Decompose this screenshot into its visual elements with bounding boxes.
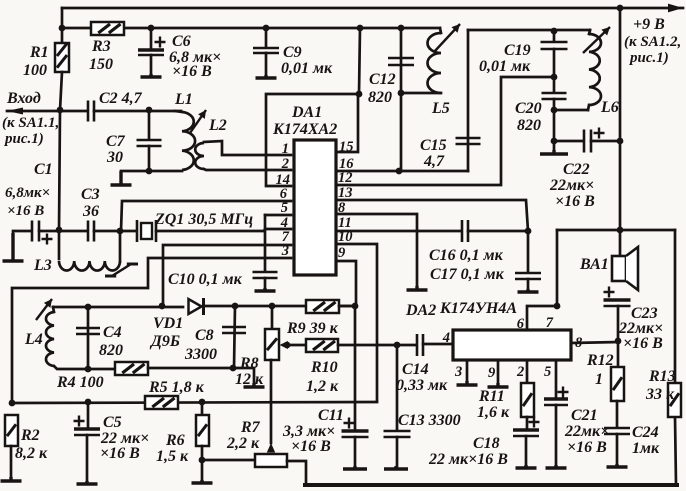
wire R8 wiper column to R7 (270, 360, 273, 443)
wire L1 top lead (175, 111, 182, 112)
capacitor C18 (513, 417, 540, 437)
svg-text:13: 13 (338, 185, 353, 201)
wire C6 stem (150, 28, 153, 49)
svg-text:К174УН4А: К174УН4А (439, 300, 517, 317)
wire R12 to C24 (616, 401, 619, 427)
wire L5 bottom row (401, 92, 441, 95)
node C12/L5 bottom (398, 90, 405, 97)
wire input (7, 110, 87, 113)
wire R6 stem (201, 402, 204, 415)
resistor R11 (521, 383, 534, 417)
svg-text:1,5 к: 1,5 к (156, 448, 189, 465)
wire C11 column (354, 306, 357, 430)
wire bus to R13 (675, 417, 676, 484)
ground DA2 pin3 (457, 381, 478, 385)
svg-text:3300: 3300 (184, 346, 217, 363)
node C4 top (85, 304, 92, 311)
ground pin8 DA1 (407, 286, 428, 290)
svg-text:DA1: DA1 (291, 104, 322, 121)
capacitor C11 (342, 418, 369, 438)
wire R4 to ground stub (148, 368, 254, 384)
wire pin7 to VD1 node (163, 245, 291, 306)
node rail2 left junction (59, 25, 66, 32)
svg-text:1,6 к: 1,6 к (477, 404, 510, 421)
wire C9 lower stem (265, 53, 268, 77)
crystal ZQ1 30,5MHz (137, 220, 156, 242)
wire C20 bottom column (553, 99, 556, 152)
svg-text:С18: С18 (473, 435, 500, 452)
wire R1 bottom column (59, 72, 62, 231)
node bus/DA2 supply (617, 227, 624, 234)
wire C17 bottom (527, 279, 530, 291)
wire C8 stem (234, 306, 235, 368)
svg-text:33 к: 33 к (645, 386, 675, 403)
wire C22 row (554, 140, 583, 143)
wire C1 to C3 (39, 230, 87, 233)
svg-text:С7: С7 (106, 133, 126, 150)
op-amp DA2 body K174UN4A (453, 330, 571, 360)
wire R6 bottom (201, 446, 204, 482)
wire C10 bottom (264, 278, 267, 290)
svg-text:7: 7 (546, 315, 554, 331)
svg-text:1: 1 (595, 371, 603, 388)
resistor R4 (115, 362, 148, 375)
wire L6 top lead (589, 30, 590, 34)
node C12/pin16 (396, 168, 403, 175)
svg-text:R7: R7 (240, 419, 261, 436)
wire C4 stem (87, 307, 90, 369)
svg-text:С22: С22 (563, 161, 590, 178)
capacitor C5 (74, 416, 101, 436)
svg-text:×16 В: ×16 В (172, 63, 212, 80)
node R8 wiper/R10 (284, 342, 291, 349)
svg-text:(к SA1.2,: (к SA1.2, (624, 34, 681, 50)
wire DA2 pin5 stub (555, 360, 558, 398)
wire L6 bottom row (554, 109, 588, 112)
wire R4 row (88, 368, 115, 371)
wire pin8 ground (336, 214, 417, 288)
wire +9V top rail (62, 7, 683, 10)
wiper arrow R8 (280, 341, 289, 349)
node R6/rail (199, 399, 206, 406)
inductor L6 (589, 34, 601, 105)
svg-text:×16 В: ×16 В (555, 193, 595, 210)
capacitor C16 (462, 220, 468, 242)
svg-text:×16 В: ×16 В (7, 203, 44, 219)
svg-text:1мк: 1мк (632, 440, 660, 457)
inductor L4 (46, 312, 54, 366)
wire R12 stem (617, 341, 620, 367)
wiper arrow R7 (267, 443, 275, 453)
wire pin12 row (336, 77, 554, 185)
node C4 bottom (85, 366, 92, 373)
wire pin10 to volume rail (336, 244, 377, 401)
wire DA2 pin6 (527, 306, 557, 330)
svg-text:С15: С15 (420, 137, 447, 154)
svg-text:8,2 к: 8,2 к (15, 445, 48, 462)
node input/R1 (57, 107, 64, 114)
wire pin3 to left bus (12, 258, 291, 403)
svg-text:×16 В: ×16 В (567, 439, 607, 456)
svg-text:+9 В: +9 В (633, 16, 665, 33)
svg-text:R11: R11 (478, 388, 505, 405)
wire R10 row (287, 344, 306, 347)
tuning arrow L5 (434, 24, 460, 52)
resistor R12 (611, 367, 624, 401)
wire R11 to C18 (526, 417, 529, 429)
wire pin9 jog (336, 261, 356, 306)
node C22/bus (617, 138, 624, 145)
wire L3 left leg (58, 230, 61, 259)
svg-text:×16 В: ×16 В (291, 438, 331, 455)
wire C23 to pin8 node (617, 306, 620, 341)
svg-text:0,33 мк: 0,33 мк (396, 377, 448, 394)
svg-text:30: 30 (106, 149, 123, 166)
node C7 bottom (146, 168, 153, 175)
svg-text:2: 2 (281, 156, 289, 172)
wire DA2 supply row (557, 229, 675, 232)
ground C17 (518, 289, 539, 292)
node C22 left (551, 138, 558, 145)
svg-text:22 мк×16 В: 22 мк×16 В (428, 451, 508, 468)
svg-text:рис.1): рис.1) (628, 50, 669, 66)
svg-text:С21: С21 (571, 407, 598, 424)
node C8 top (232, 303, 239, 310)
capacitor C21 (544, 387, 569, 406)
ground C10 (255, 288, 276, 291)
svg-text:R13: R13 (648, 368, 676, 385)
capacitor C4 (76, 328, 100, 334)
wire C18 bottom (525, 436, 528, 467)
wire C5 stem (87, 402, 90, 428)
capacitor C12 (388, 58, 414, 65)
svg-text:С1: С1 (34, 161, 53, 178)
tuning arrow L4 (36, 299, 52, 320)
wire DA2 pin9 stub (497, 360, 500, 385)
wire VD1 to C8/R8/R9 (203, 305, 355, 308)
svg-text:С16 0,1 мк: С16 0,1 мк (429, 247, 504, 264)
ground R2 (1, 477, 22, 481)
svg-text:R3: R3 (91, 38, 111, 55)
svg-text:L2: L2 (208, 117, 227, 134)
wire C13 bottom (396, 437, 399, 468)
capacitor C3 (88, 221, 94, 242)
node C16/C17/pin13 (525, 228, 532, 235)
wire DA2 pin2 stub (526, 360, 529, 383)
inductor L5 (428, 33, 441, 93)
node R2/rail (9, 400, 16, 407)
capacitor C13 (384, 431, 411, 437)
svg-text:VD1: VD1 (153, 315, 183, 332)
wire L4 bottom lead (54, 366, 88, 369)
svg-text:С9: С9 (283, 44, 302, 61)
node C19/C20/pin12 (551, 74, 558, 81)
wire C21 bottom (555, 405, 558, 467)
svg-text:L6: L6 (600, 99, 619, 116)
svg-text:С4: С4 (103, 324, 122, 341)
wire pin16 row (336, 170, 468, 173)
svg-text:С11: С11 (318, 407, 344, 424)
capacitor C24 (604, 428, 630, 434)
capacitor C1 (32, 221, 53, 245)
svg-text:С3: С3 (81, 186, 100, 203)
wire C19 stem (553, 31, 556, 41)
node C1/C3/L3 (56, 227, 63, 234)
capacitor C2 (88, 101, 94, 122)
svg-text:С13 3300: С13 3300 (398, 412, 461, 429)
wire C14 to DA2 pin4 (423, 343, 453, 346)
svg-text:Д9Б: Д9Б (149, 333, 180, 350)
wire pin5 stub (265, 214, 291, 217)
wire +9V bus upper (619, 8, 622, 256)
svg-text:×16 В: ×16 В (100, 445, 140, 462)
svg-text:5: 5 (281, 200, 288, 216)
svg-text:×16 В: ×16 В (623, 335, 663, 352)
op-amp DA1 body K174XA2 (294, 140, 336, 275)
svg-text:R2: R2 (20, 427, 40, 444)
capacitor C15 (456, 138, 481, 144)
wire pin11 row (336, 230, 461, 233)
node C3/ZQ1/L3 (117, 228, 124, 235)
adjustable core L3 (112, 264, 131, 276)
svg-text:К174ХА2: К174ХА2 (272, 121, 337, 138)
svg-text:рис.1): рис.1) (3, 131, 44, 147)
svg-text:0,01 мк: 0,01 мк (281, 60, 333, 77)
wire C11 bottom (354, 437, 357, 468)
wire pin15 to loop (336, 94, 358, 152)
svg-text:L5: L5 (431, 100, 450, 117)
svg-text:R8: R8 (239, 355, 259, 372)
node bus top (617, 5, 624, 12)
capacitor C19 (541, 42, 568, 49)
svg-text:8: 8 (575, 335, 583, 351)
wire L4 top lead (53, 307, 54, 312)
resistor R1 (55, 43, 69, 72)
ground C5 (77, 481, 98, 484)
input arrowhead (7, 108, 23, 115)
wire L1/C7 bottom (121, 170, 182, 173)
wire C13 column (396, 345, 399, 430)
svg-text:Вход: Вход (6, 90, 41, 107)
wire +9V rail arrowhead (668, 4, 683, 13)
capacitor C8 (222, 327, 246, 333)
svg-text:R4 100: R4 100 (56, 374, 104, 391)
svg-text:5: 5 (544, 364, 551, 380)
svg-text:ZQ1 30,5 МГц: ZQ1 30,5 МГц (154, 211, 253, 228)
node C8 bottom (230, 365, 237, 372)
wire L2 bottom to pin2 (204, 169, 291, 170)
wire DA2 pin3 stub (466, 360, 469, 383)
ground C9 (256, 75, 277, 78)
svg-text:12 к: 12 к (235, 371, 264, 388)
resistor R6 (196, 415, 209, 446)
svg-text:1,2 к: 1,2 к (306, 378, 339, 395)
resistor R5 (145, 396, 178, 409)
resistor R3 (91, 22, 124, 35)
wire supply to DA2 pins (556, 230, 559, 306)
wire L6 bottom lead (588, 105, 589, 110)
capacitor C6 (138, 37, 166, 56)
ground R4/C8 (244, 383, 265, 387)
inductor L1 (182, 112, 195, 170)
svg-text:22мк×: 22мк× (564, 423, 609, 440)
node C12 top (398, 25, 405, 32)
svg-text:820: 820 (368, 89, 392, 106)
capacitor C22 (584, 128, 605, 153)
ground C24 (607, 464, 628, 467)
wire L5 top lead (440, 28, 441, 33)
svg-text:6,8мк×: 6,8мк× (5, 185, 50, 201)
capacitor C20 (542, 93, 567, 99)
capacitor C7 (137, 140, 162, 146)
resistor R9 (306, 300, 339, 313)
node C7/L1 top (146, 107, 153, 114)
node rail2/loop (357, 25, 364, 32)
svg-text:6: 6 (517, 316, 525, 332)
wire supply to R13 column (674, 230, 677, 383)
svg-text:R10: R10 (310, 359, 338, 376)
ground L1/C7 (111, 171, 132, 185)
resistor R2 (5, 415, 18, 446)
node C9 top (263, 25, 270, 32)
svg-text:С10 0,1 мк: С10 0,1 мк (168, 271, 243, 288)
node C6 top (148, 25, 155, 32)
node R8 top (269, 303, 276, 310)
node R6/R7 (199, 457, 206, 464)
node C20/L6 bottom (551, 107, 558, 114)
wire R10 to C14 (338, 344, 416, 347)
wire C17 stem (527, 231, 530, 272)
wire C16 to C17 (468, 230, 528, 233)
svg-text:9: 9 (338, 245, 345, 261)
tuning arrow L1/L2 (190, 110, 206, 133)
svg-text:С20: С20 (515, 100, 542, 117)
wire C7 bottom stem (148, 146, 151, 171)
speaker BA1 (612, 247, 638, 290)
wire VD1 row (53, 306, 183, 309)
wire pin13 row (336, 200, 528, 231)
ground L6/C20 (540, 150, 568, 154)
wire R7 to bottom bus right leg (287, 461, 306, 484)
ground C11 (343, 466, 367, 469)
ground C21 (546, 465, 567, 468)
wire C1 left (13, 231, 31, 233)
svg-text:22мк×: 22мк× (549, 177, 594, 194)
svg-text:С6: С6 (172, 33, 191, 50)
wire DA2 pin8 (571, 342, 618, 343)
svg-text:100: 100 (23, 62, 47, 79)
wire C15 column (467, 30, 470, 171)
wire C12 column (400, 28, 403, 171)
capacitor C9 (253, 48, 279, 53)
svg-text:ВА1: ВА1 (579, 256, 609, 273)
svg-text:3: 3 (454, 364, 462, 380)
svg-text:DA2: DA2 (405, 302, 436, 319)
wire C19/C20 mid (553, 49, 556, 92)
svg-text:L1: L1 (174, 91, 193, 108)
node supply loop top (356, 91, 363, 98)
ground R6 (192, 480, 213, 483)
svg-text:С8: С8 (195, 327, 214, 344)
svg-text:L4: L4 (24, 331, 43, 348)
tuning arrow L6 (583, 27, 610, 53)
capacitor C14 (417, 334, 423, 356)
wire second supply rail (62, 27, 440, 30)
wire C3 to ZQ1 (94, 230, 136, 233)
wire R2 bottom (10, 446, 13, 479)
wire R1 top / rail drop (61, 8, 64, 43)
svg-text:4,7: 4,7 (423, 153, 445, 170)
node R9/pin9/C11 (352, 303, 359, 310)
svg-text:С2 4,7: С2 4,7 (99, 90, 143, 107)
wire R9 right lead (339, 305, 355, 308)
svg-text:2,2 к: 2,2 к (226, 435, 260, 452)
wire C2 to C7 (94, 110, 181, 113)
ground C13 (384, 466, 408, 469)
wire C7 stem (148, 111, 151, 139)
svg-text:150: 150 (89, 56, 113, 73)
svg-text:36: 36 (82, 203, 99, 220)
svg-text:0,01 мк: 0,01 мк (479, 58, 531, 75)
wire C9 stem (265, 28, 268, 47)
ground C18 (516, 465, 537, 468)
ground C6 (141, 74, 162, 77)
wire C6 lower stem (150, 55, 153, 76)
wire pin6 to C3 node (121, 201, 291, 231)
node pin8/C23/R12 (615, 338, 622, 345)
svg-text:(к SA1.1,: (к SA1.1, (2, 115, 59, 131)
variable resistor R7 (255, 454, 287, 467)
node DA2 pin6/7 (554, 303, 561, 310)
wire C5 bottom (86, 435, 89, 483)
ground C1 (3, 233, 24, 261)
svg-text:820: 820 (99, 342, 123, 359)
wire C22 to bus (591, 140, 620, 143)
wire C19 top row (468, 29, 590, 32)
svg-text:С12: С12 (369, 71, 396, 88)
svg-text:С14: С14 (402, 361, 429, 378)
wire volume rail (12, 402, 377, 403)
node C13/C14 (394, 342, 401, 349)
svg-text:R5 1,8 к: R5 1,8 к (148, 379, 205, 396)
resistor R10 (306, 339, 338, 352)
svg-text:R1: R1 (29, 44, 49, 61)
wire bottom bus (305, 483, 677, 487)
capacitor C10 (253, 272, 278, 278)
svg-text:С5: С5 (103, 414, 122, 431)
wire C10 column (264, 215, 267, 271)
wire R8 top stem (271, 306, 274, 329)
svg-text:R9 39 к: R9 39 к (286, 320, 339, 337)
resistor R13 (668, 383, 681, 417)
node C19 top (551, 28, 558, 35)
svg-text:2: 2 (516, 364, 524, 380)
wire supply loop to rail2 (359, 28, 360, 94)
diode VD1 D9B (189, 298, 204, 315)
svg-text:1: 1 (282, 141, 289, 157)
svg-text:4: 4 (442, 330, 450, 346)
svg-text:С17 0,1 мк: С17 0,1 мк (430, 266, 505, 283)
wire C24 bottom (616, 434, 619, 466)
inductor L2 (195, 143, 204, 169)
wire L2 top to pin1 (204, 141, 291, 155)
svg-text:С24: С24 (632, 424, 659, 441)
svg-text:R12: R12 (586, 352, 614, 369)
svg-text:9: 9 (488, 365, 495, 381)
svg-text:820: 820 (517, 117, 541, 134)
inductor L3 (59, 261, 120, 271)
ground DA2 pin9 (488, 383, 509, 387)
